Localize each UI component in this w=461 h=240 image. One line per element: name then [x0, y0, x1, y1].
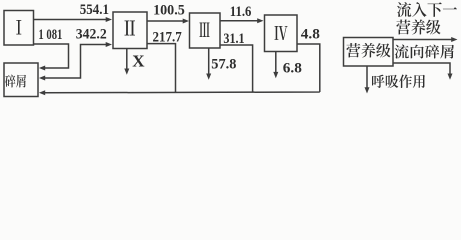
svg-text:31.1: 31.1: [223, 31, 244, 47]
svg-text:6.8: 6.8: [283, 61, 302, 77]
svg-text:100.5: 100.5: [153, 2, 185, 18]
svg-text:342.2: 342.2: [76, 27, 107, 43]
svg-text:554.1: 554.1: [80, 2, 109, 18]
svg-text:217.7: 217.7: [153, 30, 182, 46]
svg-text:11.6: 11.6: [230, 4, 252, 20]
svg-text:1 081: 1 081: [38, 27, 62, 43]
svg-text:4.8: 4.8: [301, 27, 320, 43]
svg-text:57.8: 57.8: [211, 57, 236, 73]
svg-text:X: X: [132, 51, 145, 70]
